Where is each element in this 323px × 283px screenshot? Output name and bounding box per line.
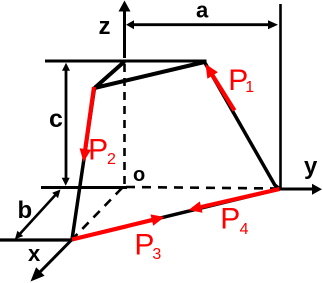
svg-text:o: o [133, 164, 145, 186]
svg-text:P: P [88, 134, 108, 167]
svg-text:1: 1 [245, 79, 254, 96]
force P2 (red arrow along C-D toward C) [80, 87, 94, 162]
plate edge B-C (bottom edge, under forces P3/P4) [72, 189, 280, 240]
x axis with arrowhead [31, 240, 73, 282]
svg-text:x: x [28, 241, 41, 266]
svg-text:P: P [220, 202, 240, 235]
dimension b line with two arrowheads [15, 190, 61, 240]
svg-text:a: a [196, 0, 209, 23]
z axis solid segment with arrowhead [119, 1, 131, 59]
svg-text:c: c [49, 105, 63, 133]
svg-text:4: 4 [240, 221, 249, 238]
svg-text:2: 2 [107, 151, 116, 168]
front bottom rail [0, 238, 72, 241]
dimension c line with two arrowheads [62, 63, 70, 186]
hidden y line (dashed) from origin o to corner B [126, 187, 278, 189]
svg-text:3: 3 [152, 246, 161, 263]
force P4 (red arrow along B-C away from B) [189, 189, 280, 213]
force P1 (red arrow along A-B toward A) [206, 64, 235, 111]
back bottom rail [41, 186, 127, 189]
z axis hidden (dashed) segment [123, 64, 126, 186]
svg-text:z: z [99, 13, 111, 40]
right extension line [279, 4, 282, 190]
plate edge D-A (top edge of plate) [95, 62, 205, 88]
hidden x line (dashed) from origin o to corner C [74, 188, 122, 238]
rod from z axis to plate corner D [95, 62, 125, 89]
y axis with arrowhead [280, 184, 323, 195]
plate edge C-D (left edge, under force P2) [72, 88, 95, 240]
plate edge A-B (right edge, under force P1) [205, 62, 280, 189]
svg-text:b: b [18, 197, 33, 224]
svg-text:y: y [304, 153, 318, 180]
ceiling line (top reference) [45, 60, 207, 63]
force P3 (red arrow along C-B away from C) [72, 214, 165, 239]
dimension a line with two arrowheads [126, 20, 278, 29]
